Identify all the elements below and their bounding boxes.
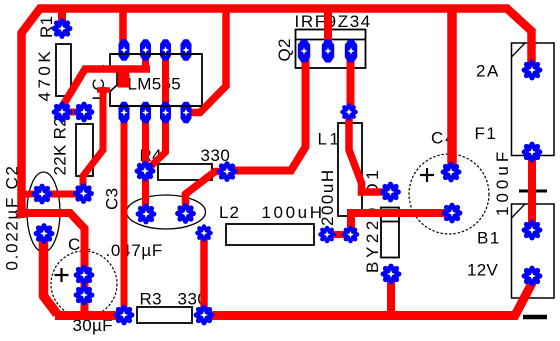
minus mark B1 — [523, 315, 547, 320]
diode D1 BY229 body — [381, 208, 399, 258]
pad IC1 pin 4 top — [181, 39, 192, 61]
pad C4 middle — [442, 203, 463, 224]
svg-text:100uH: 100uH — [262, 203, 325, 222]
pad C3 right — [175, 203, 196, 224]
pad R1 top — [52, 18, 73, 39]
svg-text:IRF9Z34: IRF9Z34 — [295, 12, 372, 31]
svg-text:12V: 12V — [467, 261, 499, 280]
pad C1 plus — [74, 265, 95, 286]
svg-text:R3: R3 — [140, 290, 162, 309]
svg-text:470K: 470K — [35, 48, 54, 102]
pad C4 top — [441, 162, 462, 183]
svg-text:200uH: 200uH — [318, 168, 337, 226]
wire VCC ring: left edge, top bar, right drop to F1 — [22, 9, 532, 219]
svg-text:22K R2: 22K R2 — [51, 117, 70, 176]
wire L2 right to L1 bottom link — [327, 231, 351, 238]
pad IC1 pin 7 bottom — [160, 102, 171, 124]
pad R3 right — [194, 305, 215, 326]
wire C3 right to R4 right — [186, 172, 228, 215]
wire F1 bottom to B1 plus — [528, 152, 536, 230]
wire ground bar right — [204, 276, 532, 316]
pad R4 right — [217, 161, 238, 182]
plus mark C4 — [420, 168, 434, 182]
pad IC1 pin 1 top — [119, 39, 130, 61]
resistor R1 body — [56, 44, 71, 96]
inductor L1 body — [338, 123, 362, 216]
pad D1 top — [380, 182, 401, 203]
capacitor C3 body — [127, 195, 206, 229]
pad L2 right — [318, 226, 336, 244]
svg-text:.047µF: .047µF — [106, 241, 163, 260]
svg-text:C3: C3 — [103, 188, 122, 210]
svg-text:LM555: LM555 — [128, 75, 181, 94]
pad B1 plus — [522, 220, 543, 241]
svg-text:BY229 D1: BY229 D1 — [363, 167, 382, 273]
pad IC1 pin 2 top — [140, 39, 151, 61]
pad L1 bottom — [342, 226, 360, 244]
svg-text:F1: F1 — [475, 124, 498, 143]
wire top bar to R1 top — [58, 9, 66, 30]
pad IC1 pin 5 bottom — [119, 102, 130, 124]
pad IC1 pin 8 bottom — [181, 102, 192, 124]
svg-text:L2: L2 — [219, 203, 240, 222]
wire D1 bottom to ground bar — [387, 274, 395, 315]
wire ground bar left — [55, 311, 124, 320]
capacitor C4 body — [409, 154, 489, 234]
pad L2 left — [195, 224, 213, 242]
wire R1 bottom diagonal to IC notch — [62, 69, 150, 107]
pad Q2 pin 2 — [322, 40, 334, 63]
pad C2 top — [32, 184, 53, 205]
pad F1 top — [522, 60, 543, 81]
resistor R4 body — [158, 164, 212, 180]
wire R1 bottom to R2 top link — [60, 109, 86, 116]
pad L1 top — [340, 103, 358, 121]
wire notch blob — [118, 72, 130, 88]
fuse F1 body — [512, 43, 555, 156]
pad C1 minus — [74, 285, 95, 306]
pad C3 left — [136, 204, 157, 225]
inductor L2 body — [226, 224, 314, 245]
pad IC1 pin 6 bottom — [140, 102, 151, 124]
resistor R2 body — [76, 124, 93, 176]
pad R2 top — [74, 102, 95, 123]
pad R4 left — [135, 161, 156, 182]
wire IC pad2 top into box — [142, 49, 149, 72]
battery B1 body — [512, 204, 555, 298]
wire left tee to C1 — [18, 213, 86, 230]
transistor Q2 IRF9Z34 body — [296, 30, 366, 69]
wire top bar to IC1 pad4 bottom via x226 — [186, 9, 226, 113]
svg-text:C1: C1 — [68, 235, 93, 254]
wire L2 left down to R3 right — [200, 233, 208, 315]
svg-text:100uF: 100uF — [493, 148, 512, 216]
svg-text:B1: B1 — [477, 229, 501, 248]
pad D1 bottom — [381, 264, 402, 285]
IC1 box edges over pads — [110, 54, 202, 106]
pad F1 bottom — [522, 142, 543, 163]
wire top bar to IC1 pin1 top — [119, 9, 127, 50]
plus mark B1 — [519, 181, 547, 201]
wire C1 vertical — [81, 228, 89, 315]
pad Q2 pin 1 — [298, 40, 310, 63]
wire IC pad3 vertical to R4 left — [145, 49, 166, 171]
resistor R3 body — [137, 307, 192, 323]
wire top bar to Q2 gate pad — [324, 9, 332, 52]
wire IC pad1 bottom down to R3 left — [121, 113, 128, 315]
wire notch to pin5 vertical — [97, 87, 110, 93]
wire Q2 source down to R4 right — [228, 51, 306, 171]
plus mark C1 — [55, 268, 69, 282]
op-amp U1 IC1 LM555 body — [110, 54, 202, 106]
pad IC1 pin 3 top — [160, 39, 171, 61]
wire IC pad2 bottom down to C3 left — [142, 113, 149, 214]
pad R1 bottom — [52, 102, 73, 123]
capacitor C2 body — [27, 172, 60, 252]
wire L1 top through box to D1 top — [349, 112, 390, 192]
svg-text:L1: L1 — [318, 130, 342, 149]
wire L1 bottom up to C4 middle — [351, 213, 452, 235]
capacitor C1 body — [51, 251, 117, 317]
wire C2 bottom to ground bar — [44, 233, 58, 314]
svg-text:2A: 2A — [476, 62, 500, 81]
svg-text:Q2: Q2 — [275, 38, 294, 61]
wire pin5 down to R2 bottom — [83, 87, 103, 194]
wire Q2 drain down to L1 top — [347, 51, 355, 112]
pad B1 minus — [522, 266, 543, 287]
wire top bar to C4 plus pad — [447, 9, 457, 173]
pad R3 left — [114, 305, 135, 326]
pad Q2 pin 3 — [345, 40, 357, 63]
pad C2 bottom — [34, 223, 55, 244]
wire C2 top horizontal — [20, 191, 83, 198]
pad R2 bottom — [73, 183, 94, 204]
